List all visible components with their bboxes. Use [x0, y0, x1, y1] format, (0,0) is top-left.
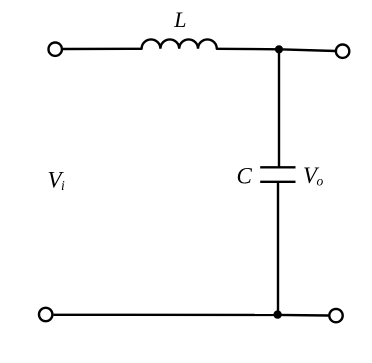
node B (bottom junction) — [273, 310, 281, 318]
svg-text:i: i — [61, 178, 65, 193]
wire node A to terminal top-right — [279, 49, 336, 51]
svg-text:o: o — [317, 173, 324, 188]
terminal bottom-right — [329, 309, 342, 322]
inductor L — [142, 39, 217, 48]
wire node A to capacitor — [278, 49, 280, 167]
terminal top-right — [336, 45, 349, 58]
node A (top junction) — [275, 45, 283, 53]
svg-text:L: L — [173, 7, 186, 32]
wire inductor to node A — [217, 48, 279, 51]
capacitor C — [260, 167, 295, 182]
wire top-left to inductor — [63, 48, 142, 51]
terminal bottom-left — [39, 308, 52, 321]
wire node B to bottom-right terminal — [278, 314, 329, 317]
svg-text:C: C — [237, 164, 253, 189]
label Vi — [48, 168, 66, 194]
wire bottom-left terminal to node B — [54, 314, 278, 317]
wire capacitor to node B — [277, 182, 279, 315]
label Vo — [303, 163, 324, 188]
terminal top-left — [49, 43, 62, 56]
